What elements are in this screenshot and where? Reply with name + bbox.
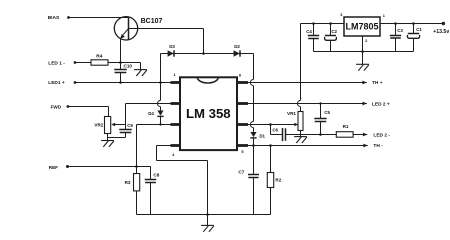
svg-text:C4: C4 [306,29,312,34]
svg-text:LM7805: LM7805 [345,22,378,32]
svg-text:C2: C2 [331,29,337,34]
svg-text:REF: REF [49,165,58,170]
svg-text:D3: D3 [169,44,175,49]
svg-text:C5: C5 [324,110,330,115]
svg-text:C3: C3 [397,28,403,33]
svg-text:LED 2 +: LED 2 + [372,102,390,108]
svg-text:LED 1 -: LED 1 - [48,60,65,66]
svg-text:VR1: VR1 [287,111,296,116]
svg-text:BIAS: BIAS [48,15,60,21]
svg-text:D2: D2 [234,44,240,49]
svg-text:LM 358: LM 358 [186,106,231,121]
svg-text:C8: C8 [153,172,159,177]
svg-text:BC107: BC107 [141,18,163,25]
svg-text:R2: R2 [275,178,281,183]
svg-text:VR2: VR2 [94,122,103,127]
svg-text:LED1 +: LED1 + [48,80,65,86]
svg-text:R3: R3 [125,180,131,185]
svg-text:C7: C7 [238,169,244,174]
svg-text:R1: R1 [343,124,349,129]
svg-text:LED 2 -: LED 2 - [373,132,390,138]
svg-text:C1: C1 [416,27,422,32]
svg-text:C6: C6 [272,127,278,132]
svg-text:D1: D1 [259,133,265,138]
svg-text:C10: C10 [124,63,133,68]
svg-text:FWD: FWD [51,105,62,110]
svg-text:C9: C9 [127,123,133,128]
svg-text:+13.5v: +13.5v [433,29,449,35]
svg-text:R4: R4 [96,54,102,60]
svg-text:D4: D4 [148,111,154,116]
svg-text:TH +: TH + [372,80,383,86]
svg-text:TH -: TH - [373,143,383,149]
